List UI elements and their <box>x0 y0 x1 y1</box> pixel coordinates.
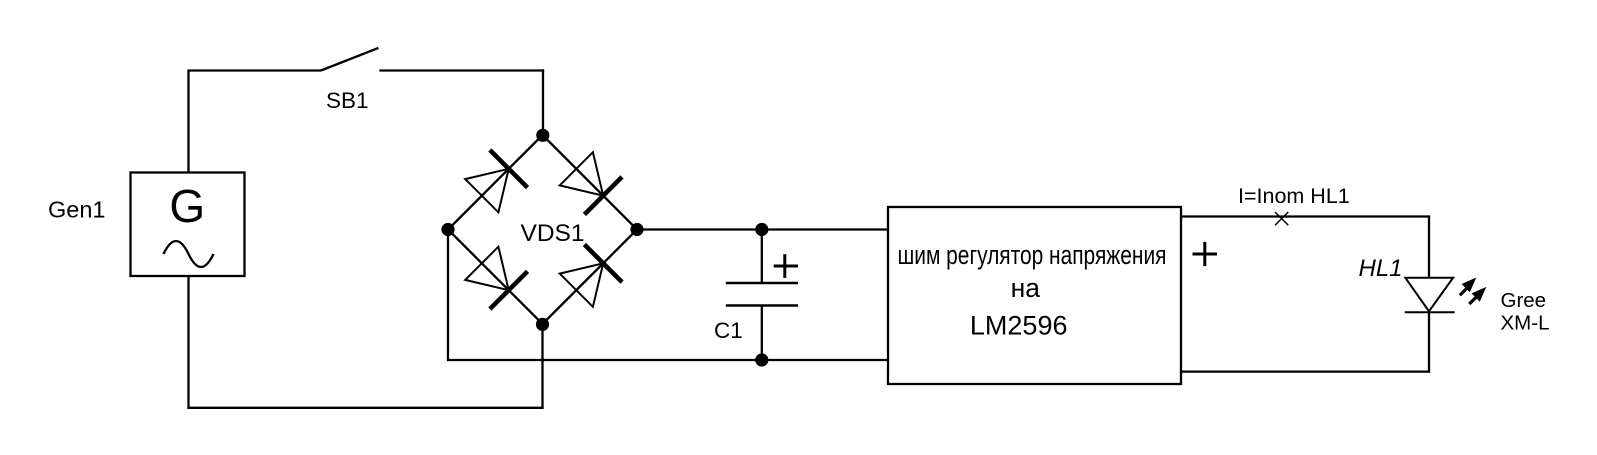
diode D2 top-to-right <box>560 152 622 214</box>
label Gree XM-L <box>1501 289 1550 334</box>
svg-text:Gen1: Gen1 <box>48 197 106 223</box>
wire: return rail to regulator <box>1181 370 1430 372</box>
capacitor C1 <box>726 230 798 361</box>
regulator U1 box <box>888 207 1181 384</box>
svg-text:LM2596: LM2596 <box>970 311 1068 341</box>
node: bridge right junction <box>630 223 643 236</box>
node: bridge bottom junction <box>536 318 549 331</box>
generator Gen1 box <box>131 173 245 277</box>
wire: regulator output plus rail <box>1181 215 1430 217</box>
output polarity plus <box>1193 242 1218 266</box>
svg-text:Gree: Gree <box>1501 289 1547 312</box>
LED HL1 <box>1405 278 1455 313</box>
node: C1 top junction <box>755 223 768 236</box>
node: bridge top junction <box>536 129 549 142</box>
wire: bridge left node down <box>447 228 449 361</box>
wire: LED cathode down <box>1428 312 1430 372</box>
node: bridge left junction <box>441 223 454 236</box>
LED emission arrow 1 <box>1460 278 1477 296</box>
LED emission arrow 2 <box>1469 287 1486 304</box>
svg-text:на: на <box>1011 273 1041 303</box>
wire: generator top lead <box>187 71 189 173</box>
current cross mark <box>1275 212 1288 225</box>
wire: negative rail to regulator <box>447 359 888 361</box>
svg-text:XM-L: XM-L <box>1501 311 1550 334</box>
diode D1 left-to-top <box>465 150 527 212</box>
diode D4 bottom-to-right <box>560 245 622 307</box>
wire: bottom rail to bridge bottom <box>187 407 543 409</box>
wire: bridge right node to regulator (+ rail) <box>637 228 888 230</box>
svg-text:G: G <box>169 180 205 232</box>
wire: down to LED anode <box>1428 215 1430 277</box>
svg-text:шим регулятор напряжения: шим регулятор напряжения <box>898 240 1167 270</box>
diode D3 left-to-bottom <box>465 247 527 309</box>
svg-text:I=Inom HL1: I=Inom HL1 <box>1238 184 1350 208</box>
switch SB1 lever <box>321 48 378 71</box>
svg-text:HL1: HL1 <box>1359 255 1403 282</box>
C1 polarity plus <box>774 254 798 278</box>
generator sine symbol <box>164 241 214 267</box>
svg-text:VDS1: VDS1 <box>521 220 585 247</box>
svg-text:SB1: SB1 <box>326 88 369 113</box>
node: C1 bottom junction <box>755 353 768 366</box>
wire: down to bridge top node <box>542 69 544 135</box>
bridge VDS1 diamond wires <box>448 135 637 324</box>
wire: generator bottom lead <box>187 276 189 409</box>
wire: bridge bottom node lead <box>541 324 543 409</box>
wire: switch to bridge top <box>379 69 544 71</box>
wire: top rail generator to switch <box>187 69 321 71</box>
svg-text:C1: C1 <box>714 318 743 343</box>
